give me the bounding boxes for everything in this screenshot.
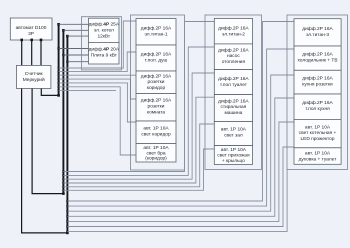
wire bus1 to свет коридор xyxy=(59,83,136,122)
svg-text:дифф.2Р 16А: дифф.2Р 16А xyxy=(218,48,249,54)
svg-text:авт. 1Р 10А: авт. 1Р 10А xyxy=(221,127,247,133)
svg-text:LED прожектор: LED прожектор xyxy=(300,136,334,142)
wire bus2 to стиральная xyxy=(63,97,214,183)
wire bus1 to титан-1 xyxy=(59,21,136,68)
svg-text:дифф.2Р 16А: дифф.2Р 16А xyxy=(141,52,172,58)
breaker авт.1Р 10А свет бра xyxy=(136,144,176,163)
wire bus3 to кухня розетки xyxy=(67,75,294,211)
wire bus2 to свет прихожая xyxy=(63,149,214,190)
panel enclosure 3 xyxy=(131,15,185,170)
bus1 tap nodes xyxy=(58,67,60,69)
wire meter to bus2 xyxy=(32,89,63,194)
svg-text:3Р: 3Р xyxy=(28,31,34,37)
breaker авт.1Р 10А духовка туалет xyxy=(294,148,341,165)
terminal dots of автомат xyxy=(20,39,23,42)
svg-text:авт. 1Р 10А: авт. 1Р 10А xyxy=(143,126,169,132)
node bus1-плита xyxy=(57,47,59,49)
svg-text:розетки: розетки xyxy=(148,80,165,85)
wire bus3 to титан-3 xyxy=(67,22,294,202)
wire bus1 spare xyxy=(59,89,116,91)
node bus3-плита xyxy=(66,61,68,63)
bus3 tap nodes xyxy=(66,200,68,202)
svg-text:дифф.4Р 25А: дифф.4Р 25А xyxy=(89,22,120,28)
bus L1 xyxy=(58,24,60,95)
breaker дифф.2Р 16А эл.титан-2 xyxy=(214,18,252,44)
svg-text:дифф.4Р 20А: дифф.4Р 20А xyxy=(89,47,120,53)
svg-text:(коридор): (коридор) xyxy=(145,156,167,162)
wire автомат to счетчик L2 xyxy=(31,40,33,65)
wire bus2 to титан-2 xyxy=(63,22,214,172)
wire bus1 to свет бра xyxy=(59,87,136,155)
svg-text:т.пол туалет: т.пол туалет xyxy=(220,83,248,88)
breaker авт.1Р 10А свет зал xyxy=(214,122,252,146)
breaker дифф.2Р 16А розетки комната xyxy=(136,94,176,122)
svg-text:+ крыльцо: + крыльцо xyxy=(222,159,245,164)
panel enclosure 2 xyxy=(82,17,122,70)
wire автомат to счетчик L1 xyxy=(21,40,23,65)
svg-text:авт. 1Р 10А: авт. 1Р 10А xyxy=(221,147,247,153)
svg-text:12кВт: 12кВт xyxy=(97,34,110,40)
svg-text:коридор: коридор xyxy=(147,86,166,91)
svg-text:свет коридор: свет коридор xyxy=(141,133,171,138)
wire bus3 to свет котельная xyxy=(67,122,294,221)
wire meter to bus3 xyxy=(22,89,68,233)
bus L2 xyxy=(62,30,64,193)
svg-text:эл. котел: эл. котел xyxy=(94,29,114,34)
svg-text:Плита 9 кВт: Плита 9 кВт xyxy=(91,53,118,59)
wire bus2 to насос xyxy=(63,47,214,175)
wire автомат to счетчик L3 xyxy=(40,40,42,65)
wire bus3 spare riser xyxy=(67,170,287,232)
breaker дифф.2Р 16А эл.титан-3 xyxy=(294,19,341,46)
svg-text:т.пол. душ: т.пол. душ xyxy=(145,59,168,64)
panel enclosure 4 xyxy=(205,15,262,170)
breaker дифф.4Р 20А плита xyxy=(89,42,120,64)
wire bus3 to котел xyxy=(67,35,88,37)
wire bus2 to плита xyxy=(63,54,88,56)
bus2 tap nodes xyxy=(62,170,64,172)
breaker дифф.2Р 16А холодильник ТВ xyxy=(294,46,341,70)
node bus2-плита xyxy=(62,54,64,56)
wire bus1 to т.пол душ xyxy=(59,52,136,72)
breaker дифф.2Р 16А насос отопления xyxy=(214,44,252,70)
wire bus3 to холодильник xyxy=(67,49,294,206)
wire bus2 to котел xyxy=(63,29,88,31)
svg-text:свет бра: свет бра xyxy=(146,150,165,156)
svg-text:свет котельная +: свет котельная + xyxy=(299,131,337,136)
svg-text:дифф.2Р 16А: дифф.2Р 16А xyxy=(218,76,249,82)
wire bus3 to свет духовка-туалет xyxy=(67,147,294,227)
breaker дифф.2Р 16А эл.титан-1 xyxy=(136,19,176,45)
wire bus2 to т.пол туалет xyxy=(63,73,214,179)
wire bus3 to т.пол кухня xyxy=(67,98,294,216)
svg-text:эл.титан-2: эл.титан-2 xyxy=(222,32,245,38)
svg-text:дифф.2Р 16А: дифф.2Р 16А xyxy=(302,26,333,32)
wire bus3 to плита xyxy=(67,61,88,63)
wire bus1 to розетки комната xyxy=(59,79,136,99)
svg-text:кухня розетки: кухня розетки xyxy=(302,83,333,88)
svg-text:дифф.2Р 16А: дифф.2Р 16А xyxy=(218,99,249,105)
svg-text:дифф.2Р 16А: дифф.2Р 16А xyxy=(302,52,333,58)
bus L3 xyxy=(66,36,68,233)
breaker дифф.2Р 16А т.пол туалет xyxy=(214,70,252,95)
breaker дифф.2Р 16А розетки коридор xyxy=(136,71,176,94)
svg-text:дифф.2Р 16А: дифф.2Р 16А xyxy=(302,100,333,106)
wire bus1 to котел xyxy=(59,23,89,25)
svg-text:дифф.2Р 16А: дифф.2Р 16А xyxy=(302,76,333,82)
svg-text:Счетчик: Счетчик xyxy=(25,71,44,77)
breaker авт.1Р 10А свет котельная xyxy=(294,119,341,147)
svg-text:дифф.2Р 16А: дифф.2Р 16А xyxy=(141,26,172,32)
svg-text:т.пол кухня: т.пол кухня xyxy=(305,107,330,112)
svg-text:розетки: розетки xyxy=(148,105,165,110)
svg-text:машина: машина xyxy=(224,111,242,116)
wire bus1 to розетки коридор xyxy=(59,74,136,76)
breaker авт.1Р 10А свет коридор xyxy=(136,121,176,144)
svg-text:духовка + туалет: духовка + туалет xyxy=(299,158,338,163)
svg-text:свет прихожая: свет прихожая xyxy=(217,154,250,159)
svg-text:Меркурий: Меркурий xyxy=(23,76,45,83)
svg-text:свет зал: свет зал xyxy=(224,134,243,139)
breaker дифф.2Р 16А т.пол душ xyxy=(136,45,176,71)
svg-text:комната: комната xyxy=(147,111,165,116)
wire bus1 to плита xyxy=(59,48,89,50)
svg-text:эл.титан-1: эл.титан-1 xyxy=(144,32,167,38)
breaker дифф.2Р 16А кухня розетки xyxy=(294,70,341,94)
svg-text:насос: насос xyxy=(227,54,240,59)
svg-text:дифф.2Р 16А: дифф.2Р 16А xyxy=(141,98,172,104)
wire meter to bus1 xyxy=(41,89,58,96)
svg-text:авт. 1Р 10А: авт. 1Р 10А xyxy=(143,145,169,151)
panel enclosure 5 xyxy=(287,15,348,170)
wire bus2 to свет зал xyxy=(63,124,214,187)
svg-text:отопления: отопления xyxy=(222,60,246,65)
breaker QF main: автомат D100 xyxy=(10,18,52,40)
svg-text:автомат D100: автомат D100 xyxy=(16,25,47,31)
breaker дифф.2Р 16А т.пол кухня xyxy=(294,94,341,119)
svg-text:авт. 1Р 10А: авт. 1Р 10А xyxy=(305,151,331,157)
meter: Счетчик Меркурий xyxy=(17,65,51,88)
svg-text:холодильник + ТВ: холодильник + ТВ xyxy=(297,58,337,64)
breaker дифф.4Р 25А эл.котел xyxy=(89,18,120,42)
breaker авт.1Р 10А свет прихожая xyxy=(214,146,252,165)
svg-text:стиральная: стиральная xyxy=(220,105,246,110)
svg-text:авт. 1Р 10А: авт. 1Р 10А xyxy=(305,125,331,131)
breaker дифф.2Р 16А стиральная машина xyxy=(214,95,252,122)
svg-text:дифф.2Р 16А: дифф.2Р 16А xyxy=(141,74,172,80)
svg-text:дифф.2Р 16А: дифф.2Р 16А xyxy=(218,26,249,32)
svg-text:эл.титан-3: эл.титан-3 xyxy=(306,32,329,38)
